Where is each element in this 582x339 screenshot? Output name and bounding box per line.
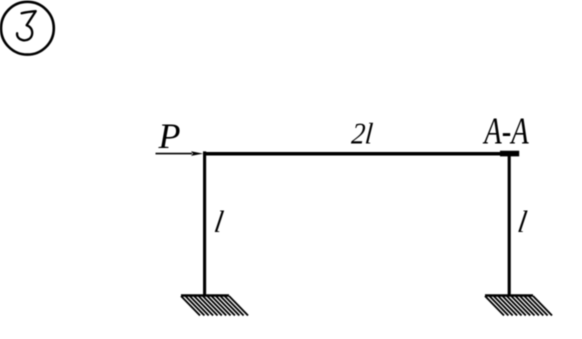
svg-text:A-A: A-A [483,111,529,153]
svg-text:l: l [212,205,226,239]
left column [203,151,206,295]
section mark bar A-A [500,151,519,157]
span label 2l [350,118,374,151]
section label A-A [483,111,529,153]
left fixed support [181,296,248,316]
force label P [158,116,181,156]
beam (top horizontal member) [203,152,519,156]
digit 3 (handwritten) [17,11,36,40]
right fixed support [485,296,552,316]
force arrow (wire) [156,153,193,155]
right column length label l [516,205,530,239]
svg-text:2l: 2l [350,118,374,151]
svg-text:l: l [516,205,530,239]
svg-text:P: P [158,116,181,156]
figure number circle [1,2,54,55]
right column [508,154,511,296]
left column length label l [212,205,226,239]
